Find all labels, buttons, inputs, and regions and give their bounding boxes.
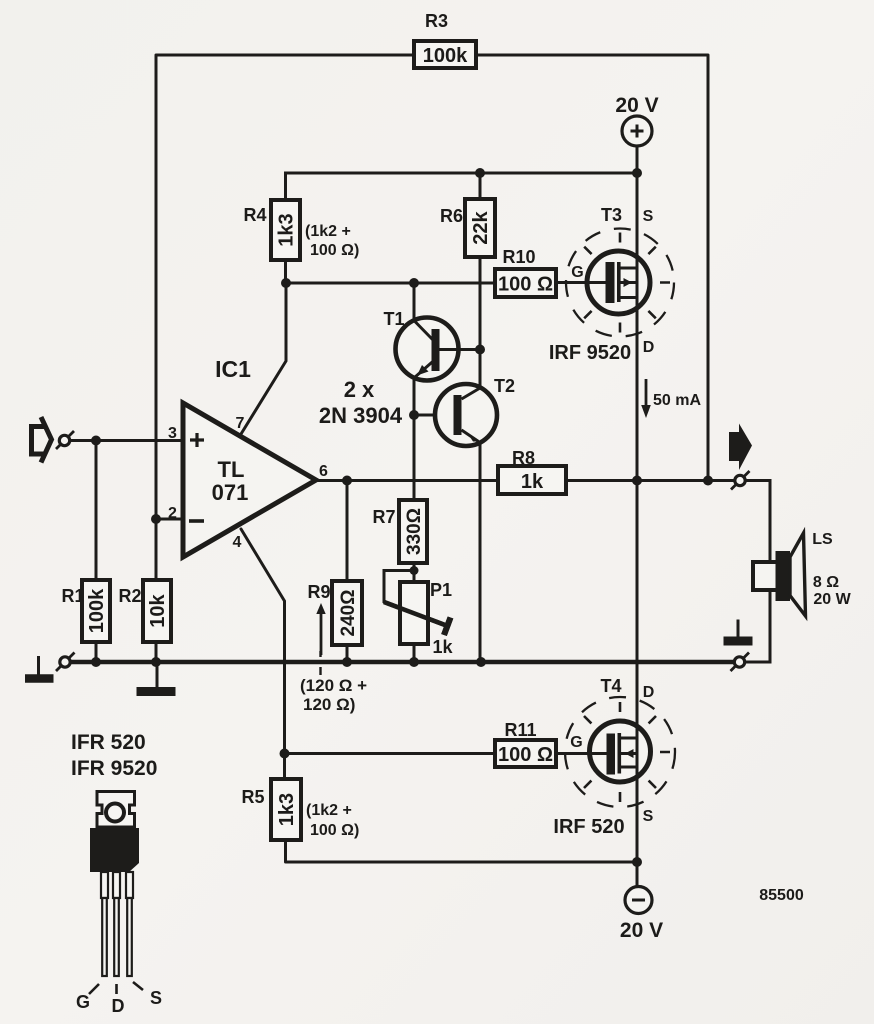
svg-text:IRF 520: IRF 520 (553, 816, 624, 838)
svg-text:120 Ω): 120 Ω) (303, 695, 355, 714)
svg-text:22k: 22k (470, 210, 492, 244)
svg-text:2 x: 2 x (344, 377, 375, 402)
svg-text:R5: R5 (241, 787, 264, 807)
svg-text:1k3: 1k3 (276, 793, 298, 826)
svg-text:20 W: 20 W (813, 591, 851, 608)
svg-text:G: G (571, 264, 583, 281)
svg-text:T4: T4 (600, 676, 621, 696)
svg-text:R6: R6 (440, 206, 463, 226)
svg-text:10k: 10k (147, 593, 169, 627)
svg-text:S: S (643, 808, 654, 825)
svg-text:R8: R8 (512, 448, 535, 468)
svg-text:85500: 85500 (759, 887, 804, 904)
svg-text:100 Ω): 100 Ω) (310, 822, 359, 839)
svg-text:071: 071 (212, 480, 249, 505)
svg-text:TL: TL (218, 457, 245, 482)
svg-text:IRF 9520: IRF 9520 (549, 342, 631, 364)
svg-text:D: D (643, 684, 655, 701)
svg-text:R9: R9 (307, 582, 330, 602)
svg-text:R11: R11 (504, 720, 536, 740)
svg-text:R7: R7 (372, 507, 395, 527)
svg-text:G: G (570, 734, 582, 751)
svg-text:R1: R1 (61, 586, 84, 606)
svg-text:S: S (643, 208, 654, 225)
svg-text:7: 7 (236, 415, 245, 432)
svg-text:2: 2 (168, 505, 177, 522)
svg-text:D: D (112, 996, 125, 1016)
svg-text:240Ω: 240Ω (338, 590, 359, 637)
svg-text:IFR 9520: IFR 9520 (71, 757, 157, 780)
svg-text:50 mA: 50 mA (653, 392, 701, 409)
svg-text:1k3: 1k3 (276, 213, 298, 246)
svg-text:R10: R10 (502, 247, 535, 267)
svg-text:8 Ω: 8 Ω (813, 574, 839, 591)
svg-text:S: S (150, 988, 162, 1008)
svg-text:100k: 100k (423, 45, 468, 67)
svg-text:R4: R4 (243, 205, 266, 225)
svg-text:100 Ω: 100 Ω (498, 744, 553, 766)
svg-text:G: G (76, 992, 90, 1012)
svg-text:20 V: 20 V (620, 919, 663, 942)
svg-text:(1k2 +: (1k2 + (305, 223, 351, 240)
svg-text:100 Ω: 100 Ω (498, 274, 553, 296)
svg-text:1k: 1k (521, 471, 544, 493)
svg-text:T2: T2 (494, 376, 515, 396)
svg-text:R2: R2 (118, 586, 141, 606)
svg-text:T3: T3 (601, 205, 622, 225)
svg-text:D: D (643, 339, 655, 356)
svg-text:IFR 520: IFR 520 (71, 731, 146, 754)
svg-text:1k: 1k (432, 637, 453, 657)
svg-text:R3: R3 (425, 11, 448, 31)
svg-text:4: 4 (233, 534, 242, 551)
svg-text:(120 Ω +: (120 Ω + (300, 676, 367, 695)
svg-text:P1: P1 (430, 580, 452, 600)
svg-text:330Ω: 330Ω (404, 508, 425, 555)
svg-text:T1: T1 (383, 309, 404, 329)
svg-text:100k: 100k (86, 588, 108, 633)
svg-text:(1k2 +: (1k2 + (306, 802, 352, 819)
svg-text:2N 3904: 2N 3904 (319, 403, 403, 428)
svg-text:LS: LS (812, 531, 833, 548)
svg-text:20 V: 20 V (615, 94, 658, 117)
svg-text:3: 3 (168, 425, 177, 442)
svg-text:IC1: IC1 (215, 356, 251, 382)
svg-text:6: 6 (319, 463, 328, 480)
svg-text:100 Ω): 100 Ω) (310, 242, 359, 259)
